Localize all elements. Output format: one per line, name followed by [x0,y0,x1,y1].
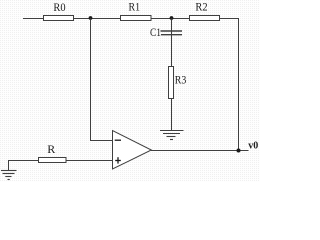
svg-text:R3: R3 [175,72,187,86]
svg-text:v0: v0 [248,141,258,152]
wire: R3 to ground [171,99,173,131]
wire: op-amp output to node v0 [151,150,249,152]
junction node v0 [237,149,241,153]
wire: R2 to right rail corner, down to output node [220,19,239,151]
wire: input lead to R0 [23,18,44,20]
wire: R0 to R1 through node A [74,18,121,20]
resistor R0 [44,16,74,21]
wire: node B down to capacitor C1 and on to R3 [171,19,173,67]
wire: R to op-amp non-inverting input [66,160,113,162]
svg-text:C1: C1 [150,25,161,39]
resistor R [39,158,67,163]
resistor R3 [169,67,174,99]
wire: ground corner up to R (non-inverting branch) [9,161,39,171]
capacitor C1 [161,31,183,35]
resistor R2 [190,16,220,21]
wire: R1 to R2 through node B [151,18,190,20]
junction node B [170,16,174,20]
wire: node A down and right to op-amp inverting input [91,19,113,141]
ground (bottom left) [1,171,17,180]
svg-text:R2: R2 [195,0,207,14]
svg-text:R0: R0 [53,0,65,14]
resistor R1 [121,16,152,21]
svg-text:R: R [47,142,55,156]
svg-text:R1: R1 [129,0,141,14]
ground (below R3) [160,131,184,140]
junction node A [89,16,93,20]
op-amp U1 [113,131,152,170]
